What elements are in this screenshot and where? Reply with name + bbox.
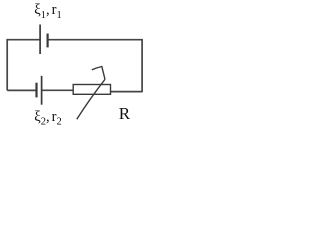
wire: left vertical xyxy=(6,39,8,91)
wire: bottom-right segment xyxy=(111,91,143,93)
wire: top-left segment xyxy=(7,39,39,41)
resistor R slider arrow shaft xyxy=(77,79,105,119)
svg-text:R: R xyxy=(119,104,131,123)
battery E1: long plate xyxy=(39,25,41,55)
battery E2: long plate xyxy=(41,76,43,105)
resistor R box xyxy=(73,85,110,95)
wire: right vertical xyxy=(141,39,143,92)
wire: top-right segment xyxy=(48,39,142,41)
wire: bottom-middle segment xyxy=(42,89,73,91)
wire: bottom-left segment xyxy=(7,89,36,91)
battery E2: short plate xyxy=(35,83,37,98)
battery E1: short plate xyxy=(46,34,48,48)
resistor R arrowhead xyxy=(92,67,105,80)
